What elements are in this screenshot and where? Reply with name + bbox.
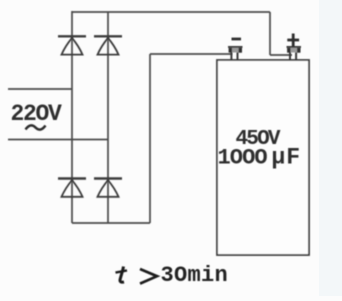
plus sign of positive terminal xyxy=(287,34,299,47)
wire: AC input bottom xyxy=(8,139,108,141)
note symbol t (discharge time annotation) xyxy=(116,267,128,283)
svg-text:µF: µF xyxy=(272,145,302,171)
diode D1 top-left xyxy=(58,36,86,54)
diode D3 bottom-left xyxy=(58,179,86,197)
diode D4 bottom-right xyxy=(94,179,122,197)
wire: + feed to positive terminal xyxy=(270,54,292,56)
minus sign of negative terminal xyxy=(232,38,242,41)
svg-text:1OOO: 1OOO xyxy=(218,146,268,171)
wire: negative output riser xyxy=(149,54,151,223)
wire: bottom negative bus xyxy=(72,222,150,224)
wire: left bridge column xyxy=(71,11,73,223)
wire: negative feed to terminal xyxy=(150,53,232,55)
AC tilde symbol xyxy=(26,125,46,129)
page margin strip (right) xyxy=(319,0,342,296)
note symbol &gt; (greater-than) xyxy=(140,269,157,284)
terminal positive (screw lug) xyxy=(287,46,302,61)
terminal negative (screw lug) xyxy=(228,46,243,61)
wire: right bridge column xyxy=(107,12,109,223)
diode D2 top-right xyxy=(94,36,122,54)
capacitor C1 body xyxy=(217,60,309,255)
svg-text:3Omin: 3Omin xyxy=(161,263,229,288)
wire: + drop from top bus xyxy=(269,12,271,55)
svg-text:22OV: 22OV xyxy=(11,101,63,127)
wire: AC input top xyxy=(8,88,72,90)
wire: top positive bus xyxy=(72,11,270,13)
